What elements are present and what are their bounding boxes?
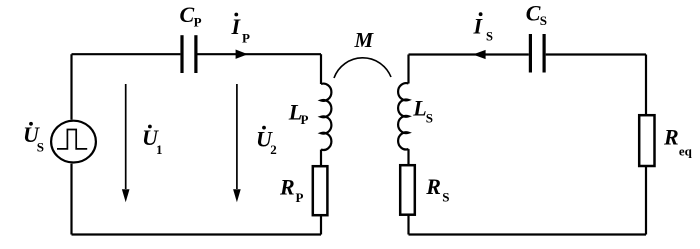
wire: left loop left rail lower <box>70 164 72 235</box>
wire: stub below R_S <box>407 215 409 235</box>
label R_S <box>425 174 449 204</box>
svg-text:S: S <box>37 140 44 155</box>
label U_2 <box>256 126 277 157</box>
svg-text:L: L <box>412 96 426 121</box>
svg-text:P: P <box>296 190 304 205</box>
wire: left loop top rail left of capacitor <box>72 53 181 55</box>
wire: right loop right rail lower <box>645 166 647 235</box>
current arrow I_S on top wire (pointing left) <box>473 50 486 59</box>
svg-text:2: 2 <box>270 142 277 157</box>
svg-text:S: S <box>486 29 493 43</box>
label L_P <box>288 100 309 128</box>
wire: right loop top rail left of capacitor <box>409 53 529 55</box>
wire: right loop left rail top stub <box>407 55 409 84</box>
voltage arrow U_2 <box>233 84 241 202</box>
svg-text:S: S <box>540 13 547 28</box>
label C_S <box>526 0 547 28</box>
svg-text:C: C <box>180 2 195 27</box>
label U_S <box>23 122 44 155</box>
wire: stub between L_P and R_P <box>320 150 322 166</box>
svg-text:M: M <box>354 28 375 52</box>
wire: left loop top rail right of capacitor <box>198 53 322 55</box>
svg-text:C: C <box>526 0 541 25</box>
label R_P <box>279 174 304 204</box>
svg-text:S: S <box>442 189 449 204</box>
svg-text:I: I <box>473 14 484 39</box>
mutual inductance arc M <box>334 58 391 78</box>
source pulse symbol <box>57 130 87 149</box>
inductor L_S (4 loops bulging left) <box>398 83 408 149</box>
wire: stub between L_S and R_S <box>407 149 409 165</box>
inductor L_P (4 loops bulging right) <box>321 84 331 150</box>
label U_1 <box>142 125 163 157</box>
svg-text:R: R <box>279 174 295 199</box>
svg-text:1: 1 <box>156 142 163 157</box>
wire: right loop right rail upper <box>645 55 647 116</box>
wire: left loop right rail top stub <box>320 54 322 84</box>
resistor R_S <box>400 165 415 215</box>
svg-text:P: P <box>301 112 309 127</box>
label C_P <box>180 2 202 30</box>
label R_eq <box>663 124 693 158</box>
resistor R_eq <box>639 115 654 166</box>
wire: left loop bottom rail <box>72 233 322 235</box>
current arrow I_P on top wire <box>236 50 248 59</box>
svg-text:P: P <box>194 15 202 30</box>
label I_S <box>473 12 494 43</box>
svg-text:I: I <box>231 14 242 39</box>
voltage arrow U_1 <box>122 84 130 202</box>
label I_P <box>231 13 251 46</box>
source U_S circle <box>51 121 96 163</box>
svg-text:S: S <box>426 110 433 125</box>
wire: left loop left rail upper <box>70 54 72 120</box>
wire: stub below R_P <box>320 215 322 234</box>
resistor R_P <box>313 166 328 215</box>
label L_S <box>412 96 433 126</box>
svg-text:P: P <box>242 31 250 46</box>
wire: right loop bottom rail <box>409 233 647 235</box>
svg-text:R: R <box>663 124 679 149</box>
svg-text:R: R <box>425 174 441 199</box>
svg-text:eq: eq <box>679 143 693 158</box>
wire: right loop top rail right of capacitor <box>546 53 646 55</box>
capacitor C_S <box>529 34 546 73</box>
capacitor C1 (C_P) <box>180 35 197 73</box>
